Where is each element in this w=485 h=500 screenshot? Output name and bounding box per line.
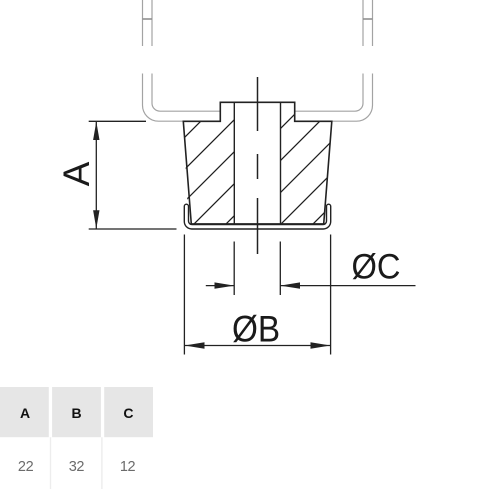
dimension C line (206, 285, 416, 287)
hatching right (179, 95, 442, 230)
insert body outline (183, 102, 331, 224)
svg-text:A: A (56, 161, 97, 186)
hatching left (92, 95, 355, 230)
svg-text:ØC: ØC (352, 247, 401, 287)
foot end cap (184, 204, 330, 229)
label ØB (232, 309, 280, 350)
dimension A line (95, 122, 97, 229)
table header cell B (52, 387, 101, 437)
dimension B line (185, 345, 330, 347)
table header cell C (104, 387, 153, 437)
table value B = 32 (69, 459, 85, 475)
tube lower-left wall (143, 74, 161, 122)
dimension B extension lines (184, 235, 330, 355)
table value separators (51, 437, 102, 489)
tube upper-right wall (broken) (363, 0, 373, 46)
table header cell A (0, 387, 49, 437)
tube lower-right wall (355, 74, 373, 122)
body bottom edge (189, 223, 327, 225)
svg-text:B: B (71, 405, 81, 421)
centerline (257, 77, 259, 254)
insert bore walls (234, 102, 280, 224)
label A (56, 161, 97, 186)
svg-text:32: 32 (69, 459, 85, 475)
tube bottom edge lines (159, 111, 357, 121)
dimension C extension lines (234, 242, 280, 296)
svg-text:A: A (20, 405, 30, 421)
svg-text:22: 22 (18, 459, 34, 475)
dimension A arrowheads (93, 122, 99, 229)
table value A = 22 (18, 459, 34, 475)
table value C = 12 (120, 459, 136, 475)
dimension A extension lines (89, 121, 177, 229)
insert silhouette (white mask over tube) (183, 102, 331, 224)
svg-text:ØB: ØB (232, 309, 280, 350)
tube upper-left wall (broken) (143, 0, 153, 46)
dimension C arrowheads (215, 282, 301, 288)
svg-text:C: C (123, 405, 133, 421)
label ØC (352, 247, 401, 287)
svg-text:12: 12 (120, 459, 136, 475)
dimension B arrowheads (185, 342, 331, 348)
